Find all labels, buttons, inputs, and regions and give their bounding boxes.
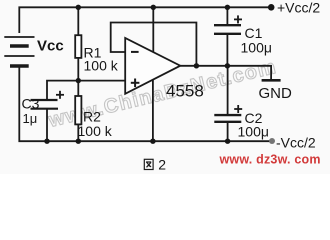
watermark www.ChinaDzNet.com <box>46 56 279 132</box>
resistor R2 <box>75 81 81 142</box>
svg-text:100 k: 100 k <box>78 123 113 139</box>
op-amp U1 triangle <box>125 38 180 94</box>
battery B1 <box>4 37 34 66</box>
svg-text:100μ: 100μ <box>238 124 269 140</box>
node: C2 bottom on -rail <box>225 139 230 144</box>
resistor R1 <box>75 7 81 80</box>
wire: op-amp V+ supply pin to top rail <box>152 7 154 52</box>
node: C1/C2 junction on output <box>225 63 230 68</box>
capacitor C1 <box>214 7 242 66</box>
node: R1 top on +rail <box>76 5 81 10</box>
caption figure 2 (drawn CJK glyph tu) <box>144 159 153 169</box>
svg-text:GND: GND <box>259 85 293 102</box>
wire: op-amp V- supply pin to bottom rail <box>152 80 154 141</box>
node: output junction at feedback <box>194 63 199 68</box>
wire: bottom rail -Vcc/2 <box>19 68 272 142</box>
capacitor C2 <box>214 66 242 141</box>
node: R2 bottom on -rail <box>76 139 81 144</box>
op-amp U1 minus input marking <box>131 51 139 53</box>
ground symbol GND <box>262 79 281 82</box>
svg-text:C3: C3 <box>22 95 40 111</box>
wire: output node to GND terminal <box>180 66 271 80</box>
terminal -Vcc/2 <box>269 138 275 144</box>
svg-text:4558: 4558 <box>166 82 204 101</box>
node: V+ pin on +rail <box>151 5 156 10</box>
svg-text:www. dz3w. com: www. dz3w. com <box>219 153 321 167</box>
svg-text:1μ: 1μ <box>23 111 38 126</box>
svg-text:-Vcc/2: -Vcc/2 <box>276 135 316 151</box>
node: C1 top on +rail <box>225 5 230 10</box>
svg-text:2: 2 <box>158 157 166 173</box>
terminal +Vcc/2 <box>268 4 275 11</box>
op-amp U1 plus input marking <box>131 79 140 88</box>
wire: top rail +Vcc/2 <box>19 7 271 33</box>
svg-text:R2: R2 <box>83 109 101 125</box>
node: V- pin on -rail <box>150 139 155 144</box>
svg-text:Vcc: Vcc <box>37 38 64 55</box>
svg-text:100 k: 100 k <box>84 58 119 74</box>
node: C3 bottom on -rail <box>44 139 49 144</box>
wire: node A divider midpoint to C3 and op-amp + input <box>47 81 125 100</box>
wire: feedback loop output to inverting input <box>111 23 197 66</box>
node: divider midpoint <box>76 78 81 83</box>
svg-text:100μ: 100μ <box>241 40 272 56</box>
svg-text:+Vcc/2: +Vcc/2 <box>277 0 320 16</box>
capacitor C3 <box>31 91 65 141</box>
